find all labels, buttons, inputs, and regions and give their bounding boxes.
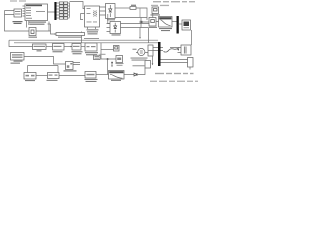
gain block A xyxy=(85,72,96,79)
wire sub flopper out xyxy=(73,63,80,65)
wire down to measurement xyxy=(140,18,142,28)
wire display feed xyxy=(101,49,114,51)
label subsystem xyxy=(85,52,98,55)
wire selector down arrow xyxy=(152,56,154,64)
current measurement i1 xyxy=(140,21,143,23)
transformer T1 three-phase block xyxy=(85,6,100,27)
wire long net A xyxy=(9,39,158,41)
signal selector squiggle xyxy=(153,48,163,51)
label deg2rad xyxy=(53,51,63,52)
text above subsystem xyxy=(84,38,99,39)
DC machine M1 circle xyxy=(138,48,145,55)
wire right verticals down xyxy=(49,22,51,32)
label alpha block xyxy=(72,51,83,54)
meter small block xyxy=(94,55,101,59)
label Three-Phase Transformer xyxy=(87,29,99,34)
label avg pd xyxy=(47,80,58,81)
thyristor bridge 2 xyxy=(110,22,121,34)
machine feed block xyxy=(116,56,123,63)
label sub flopper xyxy=(64,70,77,71)
wire net A to Pd xyxy=(9,40,33,46)
demux ladder row 4 xyxy=(57,11,60,13)
subsystem block right of alpha xyxy=(85,43,97,51)
wire mux2 to scope2 xyxy=(179,23,182,25)
wire transformer bottom stubs xyxy=(88,27,96,29)
label Pd xyxy=(37,50,42,51)
label Synchronized 6-Pulse Generator xyxy=(29,22,47,25)
label Constant xyxy=(29,37,38,38)
selector block mid-right xyxy=(148,45,153,56)
flat mux block xyxy=(56,33,85,36)
transformer winding icons xyxy=(94,11,97,17)
text +L label xyxy=(133,49,137,50)
wire gain to sat xyxy=(96,74,109,76)
wire loop bottom-left xyxy=(28,66,59,73)
wire long net B xyxy=(14,42,158,44)
wire avgpd to gain xyxy=(59,75,85,77)
label saturation 2 xyxy=(159,28,172,31)
pulses block 1 xyxy=(24,73,36,80)
demux ladder row 2 xyxy=(57,5,60,7)
title text top-left xyxy=(10,0,26,1)
demux ladder row 5 xyxy=(57,14,60,16)
wire bridge2 left stubs xyxy=(107,24,111,32)
wire bridge2 out xyxy=(121,23,150,25)
label discrete PI xyxy=(11,61,23,64)
block Vabc measurement xyxy=(14,9,22,17)
scope block 3 xyxy=(181,45,191,55)
alpha block xyxy=(72,44,81,51)
wire scope2 down to scope3 xyxy=(191,30,193,45)
wire meas stubs xyxy=(5,11,15,15)
wire transformer to bridge1 xyxy=(100,7,106,15)
terminator block xyxy=(188,58,194,68)
deg2rad block xyxy=(53,44,65,51)
text bottom-right row 2 xyxy=(150,81,198,82)
wire left of label down xyxy=(81,32,83,43)
mux bus bar 3 xyxy=(158,42,161,66)
text DC machine 2 xyxy=(133,65,145,66)
inductor L1 xyxy=(130,7,136,10)
avg pd block xyxy=(48,73,60,79)
sub flopper block xyxy=(66,62,74,70)
wire transformer stub 2 xyxy=(81,14,85,20)
demux ladder row 1 xyxy=(57,2,60,4)
Vd meas block xyxy=(149,18,156,27)
wire gen to constant verticals xyxy=(27,21,29,28)
text w label xyxy=(100,54,106,55)
label Vd meas xyxy=(149,27,157,28)
node J2 xyxy=(111,62,113,64)
wire scope down xyxy=(152,14,154,18)
text top-right annotations xyxy=(151,1,195,6)
wire alpha out xyxy=(81,46,88,48)
block right end of chain xyxy=(145,61,151,69)
text bottom-right row 1 xyxy=(155,73,194,74)
diode D1 xyxy=(134,73,137,76)
demux ladder row 3 xyxy=(57,8,60,10)
wire bridge1 dc+ out xyxy=(115,7,130,9)
wire PI to sub flopper xyxy=(24,57,66,65)
saturation block 2 xyxy=(159,17,173,28)
bus wire pair right-bottom xyxy=(161,60,188,63)
label gain block xyxy=(85,79,98,82)
mux bus bar xyxy=(54,2,56,20)
mux bus bar 2 xyxy=(177,16,179,34)
wire ladder collector xyxy=(69,3,71,18)
label bridge2 xyxy=(112,34,121,35)
label pulses 1 xyxy=(25,80,35,81)
label scope small xyxy=(151,14,161,15)
wire Pd to deg2rad xyxy=(46,46,53,48)
Pd setpoint block xyxy=(33,44,47,50)
demux ladder row 6 xyxy=(57,17,60,19)
wire bridge1 dc- out xyxy=(115,17,147,19)
op-amp U1: Synchronized 6-Pulse Generator block xyxy=(25,4,48,21)
label saturation xyxy=(111,80,121,81)
wire collector to transformer xyxy=(70,2,85,9)
wire machine stubs xyxy=(136,52,150,54)
text w ref xyxy=(116,63,124,66)
wire rail tap arrow xyxy=(139,28,141,38)
wire inductor to node xyxy=(136,8,147,20)
display block mid xyxy=(114,46,120,52)
label Vabc measurement xyxy=(13,21,23,24)
label DC machine xyxy=(131,58,148,61)
wire pulses1 to avgpd xyxy=(36,75,48,77)
scope small block top-right xyxy=(152,7,159,14)
wire bridge2 top feed xyxy=(108,14,110,24)
wire gen input stubs xyxy=(23,6,26,16)
wire sat out with diode xyxy=(124,74,134,76)
wire bridge2 dc rail xyxy=(121,28,149,43)
wire meas to sat2 xyxy=(141,21,159,24)
saturation block B xyxy=(109,71,125,80)
thyristor bridge 1 xyxy=(106,4,116,19)
wire left vertical feed xyxy=(5,11,51,32)
wire w feedback xyxy=(101,43,116,59)
wire deg2rad out xyxy=(64,46,72,48)
constant block xyxy=(29,28,36,36)
label flat block xyxy=(58,37,82,38)
wire sat2 to mux2 xyxy=(172,21,177,23)
wire gen output to mux xyxy=(48,12,55,24)
scope block 2 xyxy=(182,20,191,30)
label bridge1 xyxy=(107,19,115,20)
discrete PI controller block xyxy=(11,53,25,61)
node J1 xyxy=(107,58,109,60)
wire arrow down xyxy=(111,63,113,67)
